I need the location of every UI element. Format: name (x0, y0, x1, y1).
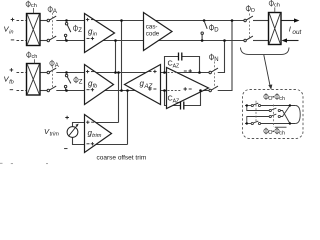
svg-text:trim: trim (50, 132, 60, 138)
svg-text:A: A (53, 9, 57, 15)
svg-text:AZ: AZ (173, 98, 180, 104)
svg-text:N: N (214, 57, 218, 63)
svg-text:coarse offset trim: coarse offset trim (97, 155, 147, 162)
svg-text:ch: ch (279, 131, 285, 137)
svg-text:in: in (93, 32, 97, 38)
svg-text:out: out (292, 29, 301, 36)
svg-text:trim: trim (92, 133, 102, 139)
svg-text:A: A (55, 63, 59, 69)
svg-text:ch: ch (279, 96, 285, 102)
svg-text:in: in (9, 29, 13, 35)
svg-text:fb: fb (9, 79, 14, 85)
svg-text:AZ: AZ (173, 63, 180, 69)
svg-text:D: D (214, 27, 219, 33)
svg-text:AZ: AZ (143, 83, 152, 90)
svg-text:Z: Z (79, 80, 83, 86)
svg-text:O: O (251, 8, 255, 14)
svg-text:I: I (289, 25, 292, 34)
svg-text:code: code (146, 31, 160, 38)
svg-text:cas-: cas- (146, 24, 158, 31)
svg-text:fb: fb (93, 84, 98, 90)
svg-text:O: O (268, 96, 272, 102)
svg-text:O: O (268, 130, 272, 136)
svg-text:ch: ch (32, 54, 38, 60)
svg-text:Z: Z (78, 28, 82, 34)
